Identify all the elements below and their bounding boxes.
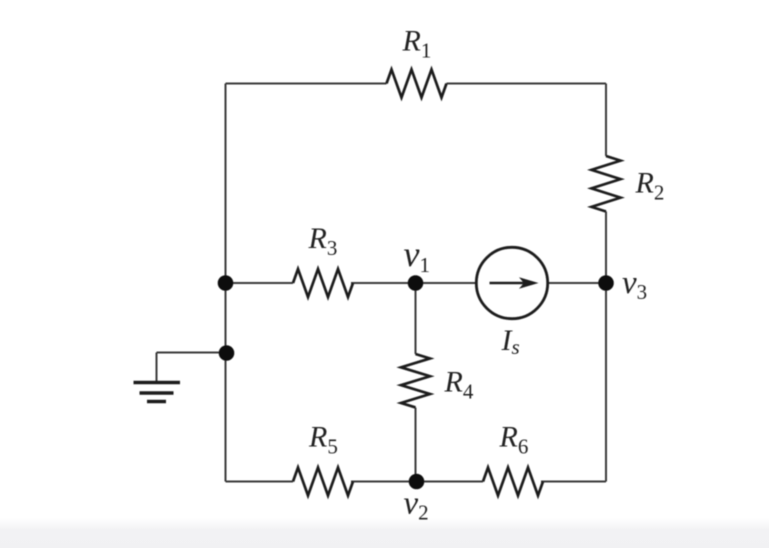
wire top left segment: [226, 83, 387, 85]
wire ground stem: [156, 353, 158, 382]
node v1 dot: [408, 275, 424, 291]
page bottom band: [0, 518, 769, 548]
ground bar 2: [140, 391, 174, 394]
wire bottom right segment: [541, 481, 606, 483]
current source arrowhead: [519, 277, 539, 289]
wire R4 upper stub: [415, 283, 417, 354]
svg-text:Is: Is: [501, 324, 520, 359]
wire R4 lower stub: [415, 408, 417, 482]
resistor R1: [387, 70, 447, 98]
wire bottom left segment: [226, 481, 294, 483]
resistor R6: [483, 468, 543, 496]
node v3 dot: [598, 275, 614, 291]
wire left rail: [225, 84, 227, 482]
node v2 dot: [409, 474, 425, 490]
svg-text:R4: R4: [444, 366, 474, 404]
wire bottom middle segment: [351, 481, 483, 483]
wire middle left segment: [226, 282, 294, 284]
wire right rail upper: [605, 84, 607, 157]
svg-text:v1: v1: [404, 234, 430, 277]
wire middle right segment: [548, 282, 606, 284]
node dot left-middle junction: [218, 275, 234, 291]
wire ground horizontal: [157, 352, 226, 354]
svg-text:v2: v2: [404, 486, 429, 525]
current source arrow shaft: [490, 282, 535, 284]
svg-text:R3: R3: [308, 222, 338, 260]
svg-text:R1: R1: [402, 25, 432, 63]
wire middle v1 segment: [351, 282, 476, 284]
node dot ground junction: [219, 345, 235, 361]
svg-text:R2: R2: [635, 167, 665, 205]
resistor R5: [293, 468, 353, 496]
resistor R3: [293, 269, 353, 297]
ground bar 3: [147, 400, 166, 403]
resistor R4: [401, 354, 430, 407]
current source Is circle: [476, 247, 547, 318]
resistor R2: [592, 156, 621, 212]
svg-text:R5: R5: [308, 421, 338, 459]
wire right rail lower: [605, 212, 607, 482]
wire top right segment: [447, 83, 607, 85]
svg-text:v3: v3: [622, 265, 647, 304]
svg-text:R6: R6: [499, 421, 529, 459]
ground bar 1: [134, 381, 181, 384]
